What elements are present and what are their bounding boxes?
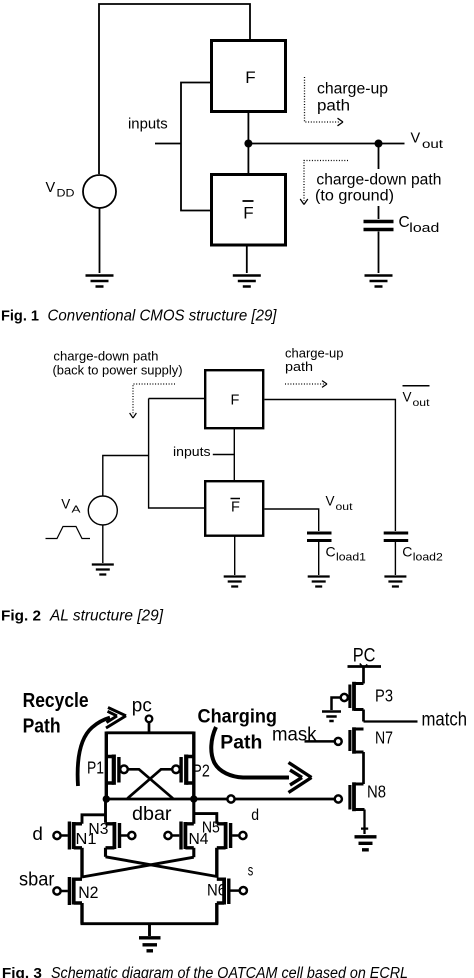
svg-text:(back to power supply): (back to power supply) (53, 363, 183, 378)
label N4 (189, 831, 209, 848)
wire VDD rail latch (106, 731, 194, 734)
wire ground tap (148, 924, 151, 936)
label Fbar (231, 499, 241, 516)
label d right (251, 807, 259, 824)
label F (231, 393, 240, 409)
transistor P3 (341, 682, 364, 711)
label Cload (399, 214, 440, 235)
charge-up dotted arrow (285, 383, 324, 385)
charge-up dotted arrow (305, 77, 340, 122)
wire diagonal to N6 (106, 857, 218, 877)
label N2 (78, 884, 98, 902)
label Recycle Path (23, 690, 89, 738)
transistor N5 (217, 822, 247, 849)
wire right storage bus (215, 848, 218, 878)
svg-text:N3: N3 (88, 821, 108, 838)
label dbar (132, 803, 172, 825)
source VDD (83, 175, 116, 208)
svg-text:N8: N8 (367, 782, 386, 802)
svg-text:V: V (326, 494, 335, 509)
wire bottom right (215, 903, 218, 924)
terminal pc (146, 716, 153, 723)
wire F to Fbar (233, 429, 235, 480)
capacitor Cload (364, 222, 394, 230)
svg-text:out: out (422, 139, 444, 151)
label N5 (202, 820, 220, 837)
wire right bridge (194, 814, 217, 824)
label Cload1 (326, 544, 367, 564)
svg-text:sbar: sbar (19, 870, 55, 891)
svg-text:load1: load1 (336, 552, 366, 564)
label mask (272, 724, 317, 746)
svg-text:V: V (46, 180, 56, 196)
wire input bus (149, 399, 204, 509)
wire VA branch (103, 456, 149, 497)
wire N7 to N8 (362, 752, 365, 784)
svg-text:charge-down path: charge-down path (53, 349, 158, 364)
ground (384, 577, 406, 587)
svg-text:pc: pc (132, 696, 152, 717)
charge-down dotted arrow (304, 161, 348, 202)
wire Fbar to ground (234, 536, 236, 575)
caption Fig.2 (1, 608, 164, 625)
svg-text:path: path (285, 359, 313, 374)
wire inputs stub (155, 143, 181, 145)
block F (212, 41, 286, 112)
wire PC bar (348, 665, 382, 668)
node d (190, 795, 197, 802)
svg-text:load: load (409, 220, 439, 235)
ground (86, 276, 114, 287)
wire Cload2 to ground (394, 542, 396, 575)
svg-text:P3: P3 (375, 686, 393, 706)
svg-text:A: A (72, 504, 81, 516)
wire pc (148, 722, 151, 733)
wire P3 gate to ground (332, 698, 341, 711)
label VA (61, 497, 80, 516)
node out junction (244, 140, 252, 148)
wire Vbarout (265, 400, 396, 532)
svg-text:inputs: inputs (128, 116, 168, 133)
FIG1 (1, 4, 444, 325)
svg-text:F: F (245, 68, 255, 87)
label Charging Path (198, 706, 278, 754)
label N1 (76, 831, 97, 848)
svg-text:F: F (231, 500, 240, 516)
label charge-down path (back to power supply) (53, 349, 183, 378)
transistor N8 (335, 782, 365, 811)
wire inputs bus (181, 83, 210, 211)
wire match (364, 720, 418, 722)
transistor N2 (53, 877, 82, 905)
svg-text:Schematic diagram of the QATCA: Schematic diagram of the QATCAM cell bas… (51, 965, 408, 978)
label PC (353, 645, 376, 667)
wire PC down (362, 667, 365, 684)
ground (92, 565, 114, 575)
svg-text:Fig. 1: Fig. 1 (1, 308, 39, 325)
svg-text:d: d (32, 823, 43, 844)
svg-text:(to ground): (to ground) (315, 188, 394, 205)
ground (365, 276, 393, 287)
tick PC (360, 664, 368, 669)
wire cross couple 2 (127, 769, 172, 798)
ground P3 gate (322, 712, 341, 722)
svg-text:charge-down path: charge-down path (316, 172, 441, 189)
label Vbarout (403, 386, 430, 409)
source VA (88, 496, 117, 525)
wire dbar tap and bridge (82, 799, 106, 824)
transistor P1 (105, 755, 128, 785)
wire bottom rail (81, 922, 219, 925)
label Vout (326, 494, 353, 513)
label VDD (46, 180, 75, 200)
capacitor Cload1 (307, 533, 332, 541)
svg-text:N7: N7 (375, 728, 393, 748)
svg-text:V: V (61, 497, 70, 512)
label N3 (88, 821, 108, 838)
label Vout (411, 131, 445, 152)
svg-text:Fig. 3: Fig. 3 (2, 965, 42, 978)
transistor N1 (53, 822, 82, 850)
wire N8 to ground (361, 810, 368, 835)
wire N3 source (104, 848, 107, 857)
ground main (139, 938, 161, 951)
svg-text:V: V (411, 131, 421, 147)
svg-text:P1: P1 (87, 758, 104, 778)
transistor N6 (217, 878, 247, 905)
wire d row (106, 798, 334, 801)
svg-text:path: path (317, 98, 350, 115)
label Fbar (243, 201, 254, 223)
label F (245, 68, 255, 87)
block Fbar (205, 481, 263, 536)
label N8 (367, 782, 386, 802)
svg-text:d: d (251, 807, 259, 824)
svg-text:F: F (243, 204, 253, 223)
label d left (32, 823, 43, 844)
label P1 (87, 758, 104, 778)
wire cap top (378, 144, 380, 220)
wire d tap N4 (192, 799, 195, 824)
node cap junction (375, 140, 383, 148)
capacitor Cload2 (384, 533, 409, 541)
FIG3 (2, 645, 467, 978)
svg-text:N6: N6 (207, 882, 226, 900)
svg-text:Charging: Charging (198, 706, 278, 728)
label pc (132, 696, 152, 717)
label charge-up path (285, 346, 344, 375)
ground (233, 276, 261, 287)
caption Fig.3 (2, 965, 408, 978)
wire bottom left (80, 903, 83, 924)
label P2 (192, 761, 210, 781)
wire Vout (265, 509, 319, 531)
svg-text:F: F (231, 393, 240, 409)
transistor N3 (106, 822, 136, 849)
svg-text:Recycle: Recycle (23, 690, 89, 712)
ground (224, 577, 246, 587)
label sbar (19, 870, 55, 891)
FIG2 (1, 346, 443, 625)
ground N8 (355, 837, 377, 850)
wire F left (149, 398, 204, 400)
transistor N7 (350, 727, 364, 753)
wire F to Fbar (247, 113, 249, 173)
svg-text:s: s (248, 863, 254, 880)
charge-down dotted arrow (133, 384, 175, 415)
svg-text:out: out (413, 397, 430, 409)
label P3 (375, 686, 393, 706)
svg-text:C: C (402, 544, 412, 560)
transistor N4 (164, 822, 193, 850)
terminal N7 gate (335, 738, 342, 745)
pulse symbol (46, 527, 91, 539)
svg-text:match: match (422, 709, 468, 731)
label inputs (173, 444, 211, 459)
svg-text:out: out (336, 501, 353, 513)
wire Vout (248, 143, 404, 145)
svg-text:DD: DD (57, 188, 75, 200)
ground (308, 577, 330, 587)
wire mask (305, 740, 335, 743)
terminal d mid (227, 795, 234, 802)
wire cross couple 1 (128, 769, 173, 798)
svg-text:PC: PC (353, 645, 376, 667)
label charge-down path (315, 172, 441, 205)
wire cap bottom (378, 232, 380, 274)
block Fbar (212, 175, 286, 246)
charging path arrow (211, 727, 289, 778)
svg-text:dbar: dbar (132, 803, 172, 825)
transistor P2 (172, 755, 195, 785)
label match (422, 709, 468, 731)
svg-text:Conventional CMOS structure [2: Conventional CMOS structure [29] (48, 308, 278, 325)
caption Fig.1 (1, 308, 277, 325)
svg-text:N5: N5 (202, 820, 220, 837)
wire VDD rail top (99, 4, 250, 174)
label N6 (207, 882, 226, 900)
svg-text:C: C (326, 544, 336, 560)
label s (248, 863, 254, 880)
label Cload2 (402, 544, 443, 564)
wire left bus (105, 732, 108, 800)
svg-text:load2: load2 (413, 552, 443, 564)
block F (205, 370, 263, 428)
svg-text:C: C (399, 214, 410, 231)
svg-text:N2: N2 (78, 884, 98, 902)
svg-text:P2: P2 (192, 761, 210, 781)
svg-text:V: V (403, 390, 412, 405)
label inputs (128, 116, 168, 133)
svg-text:Path: Path (220, 732, 262, 754)
wire Cload1 to ground (318, 542, 320, 575)
wire VDD to ground (99, 208, 101, 273)
label N7 (375, 728, 393, 748)
svg-text:charge-up: charge-up (317, 81, 388, 98)
wire VA to ground (102, 525, 104, 563)
svg-text:Fig. 2: Fig. 2 (1, 608, 41, 625)
wire P3 drain (362, 710, 365, 722)
wire N4 source (192, 848, 195, 857)
label charge-up path (317, 81, 388, 115)
wire diagonal to N2 (82, 857, 194, 877)
wire left storage bus (80, 848, 83, 878)
wire Fbar to ground (246, 246, 248, 273)
recycle path arrow (78, 718, 110, 786)
node dbar (103, 795, 110, 802)
svg-text:Path: Path (23, 716, 61, 738)
wire inputs stub (213, 454, 235, 456)
svg-text:AL structure [29]: AL structure [29] (49, 608, 164, 625)
svg-text:inputs: inputs (173, 444, 211, 459)
wire right bus (192, 732, 195, 800)
